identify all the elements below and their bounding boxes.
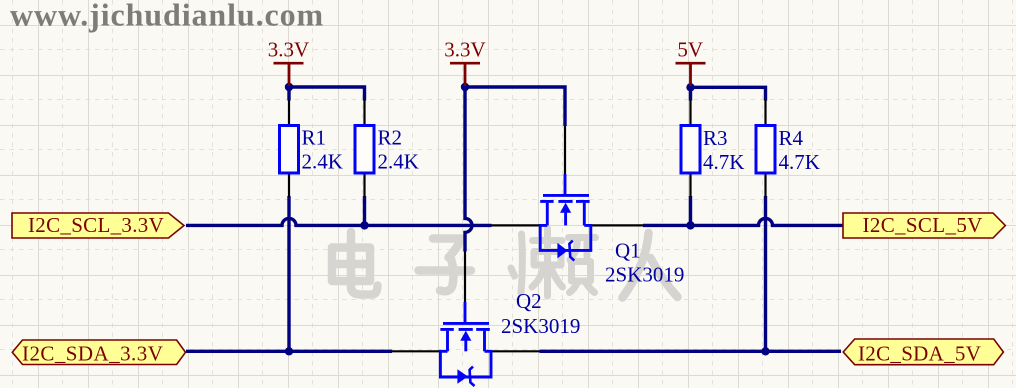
diode anode arrow Q2 bbox=[457, 369, 468, 383]
channel arrow Q1 bbox=[560, 203, 571, 213]
svg-text:2SK3019: 2SK3019 bbox=[501, 314, 580, 338]
gate bar Q1 bbox=[543, 194, 589, 197]
body R4 bbox=[756, 126, 775, 174]
junction node 3.3V#2 bbox=[461, 83, 469, 91]
resistor R1 bbox=[280, 100, 343, 197]
svg-text:I2C_SDA_3.3V: I2C_SDA_3.3V bbox=[22, 342, 163, 366]
pin gate Q2 (black) bbox=[464, 252, 466, 304]
body R3 bbox=[681, 126, 700, 174]
body lead Q1 bbox=[564, 211, 567, 225]
resistor R3 bbox=[681, 100, 744, 197]
pin 2 R1 bbox=[288, 175, 290, 198]
wire R4 leg lower bbox=[764, 196, 767, 351]
pin source Q1 (black, right) bbox=[591, 224, 643, 226]
diode cathode Q1 bbox=[569, 241, 574, 261]
body lead Q2 bbox=[464, 339, 467, 351]
body diode loop Q1 bbox=[540, 225, 591, 250]
source lead Q1 bbox=[583, 203, 586, 226]
diode anode arrow Q1 bbox=[557, 243, 567, 259]
power bar 3.3V bbox=[450, 62, 480, 65]
transistor Q2 bbox=[392, 252, 580, 387]
body diode loop Q2 bbox=[440, 351, 491, 377]
power 3.3V #2 bbox=[444, 38, 485, 87]
resistor R2 bbox=[355, 100, 419, 197]
svg-text:2.4K: 2.4K bbox=[302, 150, 343, 174]
wire R1 leg vertical bbox=[287, 87, 290, 351]
power stem 5V bbox=[689, 63, 692, 86]
port I2C_SCL_5V bbox=[843, 213, 1005, 238]
junction node 3.3V#1 bbox=[285, 83, 293, 91]
pin 2 R2 bbox=[363, 175, 365, 198]
wire 3.3V#2 vertical to Q2 gate with hop over SCL bbox=[465, 87, 472, 252]
channel stubs Q2 bbox=[440, 328, 489, 331]
junction node R4/SDA bbox=[761, 347, 769, 355]
drain lead Q2 bbox=[446, 331, 449, 352]
watermark char ZI bbox=[419, 239, 472, 292]
wire SCL bus right segment with hop at x=765.5 bbox=[643, 218, 843, 225]
svg-text:www.jichudianlu.com: www.jichudianlu.com bbox=[10, 0, 324, 33]
power bar 3.3V bbox=[274, 62, 304, 65]
power bar 5V bbox=[676, 62, 706, 65]
diode cathode Q2 bbox=[470, 367, 475, 386]
wire SDA bus right segment bbox=[540, 350, 842, 353]
svg-text:4.7K: 4.7K bbox=[703, 150, 744, 174]
channel arrow Q2 bbox=[460, 331, 471, 341]
pin drain Q2 (black, left) bbox=[392, 350, 441, 352]
svg-text:Q1: Q1 bbox=[615, 239, 641, 263]
svg-text:2.4K: 2.4K bbox=[378, 150, 419, 174]
svg-text:R1: R1 bbox=[302, 126, 327, 150]
svg-text:3.3V: 3.3V bbox=[444, 38, 485, 62]
power stem 3.3V bbox=[288, 63, 291, 86]
svg-text:I2C_SCL_3.3V: I2C_SCL_3.3V bbox=[28, 213, 164, 237]
wire R2 leg lower bbox=[363, 196, 366, 227]
pin 1 R2 bbox=[363, 100, 365, 124]
port I2C_SDA_3.3V bbox=[12, 340, 185, 366]
wire 3.3V rail to R1/R2 top bbox=[289, 87, 365, 101]
svg-text:3.3V: 3.3V bbox=[268, 38, 309, 62]
svg-text:R4: R4 bbox=[779, 126, 804, 150]
watermark char REN bbox=[623, 233, 678, 298]
wire R3 leg bbox=[689, 87, 692, 228]
svg-text:R2: R2 bbox=[378, 126, 403, 150]
pin 2 R4 bbox=[764, 175, 766, 198]
transistor Q1 bbox=[492, 126, 685, 287]
pin drain Q1 (black, left) bbox=[492, 224, 541, 226]
wire SDA bus left segment bbox=[186, 350, 392, 353]
junction node 5V bbox=[686, 83, 694, 91]
svg-text:5V: 5V bbox=[677, 38, 703, 62]
wire 3.3V#2 to Q1 gate bbox=[465, 87, 565, 126]
junction node R3/SCL bbox=[686, 221, 694, 229]
svg-text:I2C_SDA_5V: I2C_SDA_5V bbox=[858, 342, 981, 366]
gate lead Q1 bbox=[564, 174, 567, 194]
gate lead Q2 bbox=[464, 302, 467, 322]
wire SCL bus left segment with hop at x=289 bbox=[186, 218, 492, 225]
svg-text:I2C_SCL_5V: I2C_SCL_5V bbox=[863, 213, 983, 237]
svg-text:4.7K: 4.7K bbox=[779, 150, 820, 174]
svg-text:R3: R3 bbox=[703, 126, 728, 150]
port I2C_SCL_3.3V bbox=[12, 213, 184, 238]
pin 2 R3 bbox=[689, 175, 691, 198]
pin 1 R1 bbox=[288, 100, 290, 124]
channel stubs Q1 bbox=[540, 200, 589, 203]
power stem 3.3V #2 bbox=[464, 63, 467, 86]
gate bar Q2 bbox=[443, 322, 489, 325]
pin 1 R4 bbox=[764, 100, 766, 124]
watermark char LAN bbox=[511, 229, 596, 297]
wire 5V rail to R3/R4 top bbox=[691, 87, 766, 100]
junction node R2/SCL bbox=[360, 221, 368, 229]
body R2 bbox=[355, 126, 374, 174]
watermark char DIAN bbox=[332, 232, 378, 295]
resistor R4 bbox=[756, 100, 820, 197]
port I2C_SDA_5V bbox=[843, 339, 1003, 366]
svg-text:Q2: Q2 bbox=[516, 289, 542, 313]
pin 1 R3 bbox=[689, 100, 691, 124]
pin gate Q1 (black) bbox=[564, 126, 566, 175]
junction node R1/SDA bbox=[285, 347, 293, 355]
body R1 bbox=[280, 126, 299, 174]
drain lead Q1 bbox=[546, 203, 549, 226]
svg-text:2SK3019: 2SK3019 bbox=[605, 263, 684, 287]
pin source Q2 (black, right) bbox=[491, 350, 540, 352]
power 5V bbox=[676, 38, 706, 87]
source lead Q2 bbox=[483, 331, 486, 352]
power 3.3V #1 bbox=[268, 38, 309, 87]
